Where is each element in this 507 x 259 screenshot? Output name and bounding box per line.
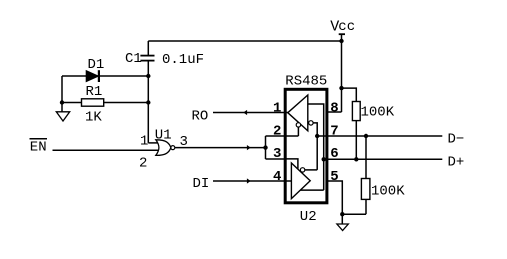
svg-text:2: 2 — [139, 156, 147, 172]
svg-text:3: 3 — [273, 146, 281, 162]
svg-text:100K: 100K — [371, 184, 405, 200]
svg-text:100K: 100K — [361, 105, 395, 121]
svg-text:1K: 1K — [85, 110, 102, 126]
svg-text:8: 8 — [330, 101, 338, 117]
svg-text:4: 4 — [273, 169, 281, 185]
svg-text:6: 6 — [330, 146, 338, 162]
svg-text:1: 1 — [273, 101, 281, 117]
svg-text:U1: U1 — [155, 127, 172, 143]
svg-text:1: 1 — [140, 133, 148, 149]
svg-text:D1: D1 — [88, 57, 105, 73]
svg-text:3: 3 — [180, 134, 188, 150]
svg-text:D+: D+ — [448, 155, 465, 171]
svg-text:RS485: RS485 — [285, 73, 327, 89]
svg-text:C1: C1 — [125, 51, 142, 67]
svg-text:0.1uF: 0.1uF — [162, 52, 204, 68]
svg-text:cc: cc — [338, 19, 355, 35]
svg-text:D−: D− — [448, 131, 465, 147]
svg-text:U2: U2 — [300, 209, 317, 225]
svg-text:7: 7 — [330, 124, 338, 140]
svg-text:DI: DI — [193, 176, 210, 192]
svg-text:2: 2 — [273, 124, 281, 140]
svg-text:5: 5 — [330, 169, 338, 185]
svg-text:R1: R1 — [86, 84, 103, 100]
svg-text:RO: RO — [192, 109, 209, 125]
svg-text:EN: EN — [30, 140, 47, 156]
